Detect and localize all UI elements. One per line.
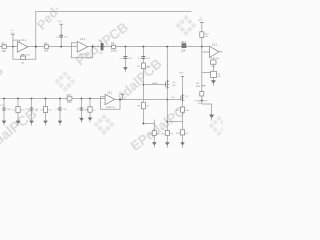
resistor R8 vertical — [141, 102, 145, 109]
capacitor C12 leg — [31, 98, 33, 100]
capacitor C16 leg — [89, 98, 91, 100]
wire corner to ground — [202, 104, 212, 114]
wire U1.2 output — [88, 46, 112, 48]
power flag VCC1 — [12, 35, 14, 47]
resistor R15 — [212, 60, 214, 81]
watermark diamond logo mid-left — [55, 71, 76, 92]
resistor R13 on bus (dark) — [182, 44, 186, 48]
wire VCC flag jog to op-amp U1.1 supply pin — [13, 40, 20, 42]
wire Q2 source — [182, 101, 184, 131]
node H — [143, 123, 145, 125]
resistor R9 to ground — [153, 123, 155, 142]
resistor R1 — [2, 45, 7, 48]
op-amp U3.1 — [210, 46, 219, 57]
ground — [123, 67, 128, 70]
watermark diamond logo right edge — [209, 116, 230, 137]
op-amp U2.1 — [105, 94, 115, 104]
svg-text:10K: 10K — [44, 50, 49, 53]
wire Q1 source down — [166, 89, 168, 131]
capacitor C15 leg — [81, 98, 83, 100]
resistor R11 — [180, 107, 184, 112]
node N — [119, 99, 121, 101]
power flag VREF on U2 output — [121, 95, 123, 100]
svg-text:COMPRESS: COMPRESS — [195, 100, 208, 102]
svg-text:U3.1: U3.1 — [212, 43, 218, 46]
transistor Q1 — [166, 80, 168, 89]
ground — [209, 115, 214, 119]
capacitor C3 — [142, 47, 144, 124]
wire top feed line — [36, 12, 192, 47]
watermark layer — [0, 2, 229, 154]
svg-text:OPA2134: OPA2134 — [78, 53, 88, 56]
svg-text:VCC: VCC — [119, 92, 124, 94]
power flag VCC3 with resistor R14 — [201, 22, 203, 52]
wire U1.1 output — [28, 46, 45, 48]
svg-text:VCC: VCC — [198, 20, 203, 22]
svg-text:1M: 1M — [21, 63, 24, 65]
wire main bus right — [116, 46, 210, 48]
resistor R17 on bottom bus — [67, 97, 72, 100]
node I (Q1 drain from bus) — [166, 46, 168, 48]
node J — [166, 99, 168, 101]
svg-text:GATE: GATE — [152, 82, 158, 85]
svg-text:VDD: VDD — [179, 72, 184, 74]
node D — [92, 46, 94, 48]
ground — [152, 142, 157, 145]
capacitor C1 vertical — [60, 24, 62, 46]
capacitor C4 series electrolytic on bus — [100, 43, 102, 50]
feedback loop U1.1 with resistor R3 — [13, 47, 36, 60]
node E — [125, 46, 127, 48]
node L — [201, 46, 203, 48]
svg-text:REF: REF — [196, 86, 201, 88]
feedback loop U2.1 — [100, 97, 120, 110]
wire U3 output — [219, 51, 222, 53]
svg-text:U1.2: U1.2 — [80, 38, 86, 41]
capacitor C11 leg — [17, 98, 19, 100]
capacitor C10 leg — [3, 98, 5, 100]
capacitor C14 leg — [59, 98, 61, 100]
svg-text:100K: 100K — [111, 49, 117, 52]
wire to Q2 leg — [167, 121, 182, 123]
resistor R2 — [45, 45, 49, 48]
node C — [60, 46, 62, 48]
resistor R16 — [211, 71, 217, 77]
svg-text:22K: 22K — [181, 49, 186, 52]
node G — [143, 84, 145, 86]
resistor R7 vertical — [141, 63, 145, 69]
wire Q1 drain — [166, 47, 168, 80]
wire gate Q1 — [143, 84, 165, 86]
svg-text:1M: 1M — [205, 36, 208, 38]
wire — [49, 46, 77, 48]
resistor R12 to ground — [180, 130, 184, 135]
node A — [12, 46, 14, 48]
capacitor C2 to ground — [124, 47, 126, 67]
wire input segment — [0, 46, 17, 48]
svg-text:VCC: VCC — [58, 21, 63, 23]
feedback loop U1.2 — [71, 43, 92, 58]
svg-text:U2.1: U2.1 — [107, 92, 113, 95]
node B — [35, 46, 37, 48]
svg-text:U1.1: U1.1 — [21, 39, 27, 42]
resistor R10 to ground — [165, 131, 169, 136]
capacitor C13 leg — [45, 98, 47, 100]
node K — [166, 121, 168, 123]
op-amp U1.1 — [17, 42, 28, 53]
watermark diamond logo top-right — [176, 15, 197, 36]
ground — [211, 80, 216, 84]
svg-text:R17: R17 — [67, 94, 72, 97]
wire corner to R9 — [143, 120, 154, 124]
watermark diamond logo bottom-center — [94, 114, 115, 135]
ground — [180, 142, 185, 145]
svg-text:OPA2134: OPA2134 — [210, 57, 220, 60]
svg-text:1M: 1M — [146, 66, 149, 68]
capacitor C9 box — [200, 92, 204, 97]
net flag chain below U3 — [201, 52, 203, 104]
op-amp U1.2 — [77, 41, 88, 52]
svg-text:10K: 10K — [185, 110, 189, 112]
ground — [165, 142, 170, 145]
svg-text:10K: 10K — [2, 50, 7, 53]
wire Q2 drain + net flag — [182, 77, 184, 95]
wire bottom bus — [1, 98, 106, 100]
svg-text:OPA2134: OPA2134 — [105, 106, 115, 109]
transistor Q2 — [182, 94, 184, 101]
node M — [201, 100, 203, 102]
wire U2 output run — [115, 99, 181, 101]
power flag VCC2 — [59, 23, 63, 25]
svg-text:VCC: VCC — [10, 33, 15, 35]
svg-text:10K: 10K — [67, 101, 72, 104]
wire into U3 — [202, 51, 210, 53]
node F — [143, 46, 145, 48]
svg-text:R13: R13 — [181, 41, 186, 44]
resistor R5 — [112, 45, 116, 48]
